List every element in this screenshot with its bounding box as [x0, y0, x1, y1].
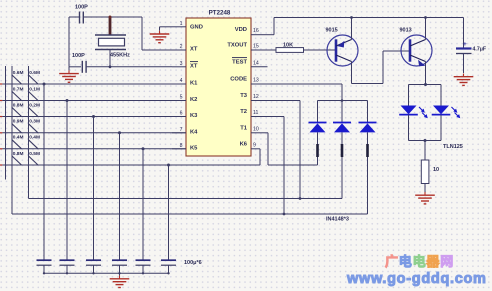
svg-text:100μ*6: 100μ*6: [184, 260, 202, 266]
svg-text:K2: K2: [190, 97, 197, 103]
svg-text:0.1M: 0.1M: [29, 86, 40, 92]
svg-text:T1: T1: [240, 125, 248, 131]
svg-text:0.4M: 0.4M: [29, 135, 40, 141]
svg-text:TLN125: TLN125: [443, 144, 463, 150]
svg-text:4.7μF: 4.7μF: [473, 47, 487, 53]
svg-text:器: 器: [425, 254, 440, 269]
svg-text:15: 15: [253, 44, 259, 50]
svg-text:网: 网: [440, 254, 453, 269]
svg-text:0.2M: 0.2M: [29, 102, 40, 108]
svg-text:1: 1: [180, 21, 183, 27]
svg-text:7: 7: [180, 127, 183, 133]
svg-text:0.7M: 0.7M: [13, 86, 24, 92]
svg-text:TXOUT: TXOUT: [227, 43, 247, 49]
svg-text:2: 2: [180, 44, 183, 50]
svg-text:K1: K1: [190, 81, 198, 87]
svg-text:9: 9: [253, 142, 256, 148]
svg-text:9015: 9015: [326, 28, 338, 34]
svg-text:TEST: TEST: [232, 59, 247, 65]
svg-text:K3: K3: [190, 113, 198, 119]
svg-text:K5: K5: [190, 145, 198, 151]
svg-text:10: 10: [253, 126, 259, 132]
svg-text:16: 16: [253, 28, 259, 34]
svg-text:455KHz: 455KHz: [110, 53, 130, 59]
svg-text:0.9M: 0.9M: [13, 119, 24, 125]
svg-text:6: 6: [180, 111, 183, 117]
svg-text:K6: K6: [240, 141, 248, 147]
svg-text:XT: XT: [190, 63, 198, 69]
svg-text:14: 14: [253, 60, 259, 66]
svg-text:www.go-gddq.com: www.go-gddq.com: [346, 271, 487, 287]
svg-text:4: 4: [180, 78, 183, 84]
svg-text:T2: T2: [240, 109, 247, 115]
svg-text:VDD: VDD: [235, 27, 247, 33]
svg-text:0.6M: 0.6M: [29, 70, 40, 76]
svg-text:0.4M: 0.4M: [13, 135, 24, 141]
svg-text:PT2248: PT2248: [209, 9, 231, 16]
svg-text:GND: GND: [190, 25, 203, 31]
svg-text:10K: 10K: [283, 43, 293, 49]
svg-text:0.8M: 0.8M: [13, 151, 24, 157]
svg-text:100P: 100P: [75, 5, 88, 11]
svg-text:8: 8: [180, 143, 183, 149]
svg-text:电: 电: [399, 254, 412, 269]
svg-text:3: 3: [180, 61, 183, 67]
svg-text:电: 电: [413, 254, 426, 269]
svg-text:9013: 9013: [400, 28, 412, 34]
svg-text:0.8M: 0.8M: [13, 102, 24, 108]
svg-text:10: 10: [433, 167, 439, 173]
svg-text:XT: XT: [190, 47, 198, 53]
svg-text:5: 5: [180, 95, 183, 101]
svg-text:+: +: [463, 41, 467, 48]
svg-text:T3: T3: [240, 93, 248, 99]
svg-text:100P: 100P: [72, 53, 85, 59]
svg-text:K4: K4: [190, 129, 198, 135]
svg-text:11: 11: [253, 110, 258, 116]
svg-text:0.3M: 0.3M: [29, 119, 40, 125]
svg-text:CODE: CODE: [230, 77, 247, 83]
svg-text:广: 广: [385, 254, 398, 269]
svg-text:13: 13: [253, 78, 259, 84]
svg-text:0.6M: 0.6M: [13, 70, 24, 76]
svg-text:IN4148*3: IN4148*3: [326, 217, 349, 223]
svg-text:0.5M: 0.5M: [29, 151, 40, 157]
svg-text:12: 12: [253, 94, 259, 100]
